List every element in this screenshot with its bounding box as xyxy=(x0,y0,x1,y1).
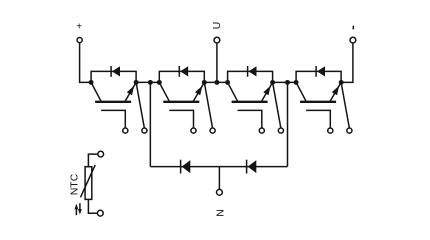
node T4 collector xyxy=(294,80,299,85)
node T1 collector xyxy=(89,80,94,85)
node T3 collector xyxy=(225,80,230,85)
wire + to T1 collector xyxy=(80,43,92,82)
svg-text:U: U xyxy=(211,22,223,30)
wire N terminal drop xyxy=(218,167,220,190)
gate G4 wire and terminal xyxy=(306,110,333,133)
node T2 collector xyxy=(157,80,162,85)
terminal NTC bottom xyxy=(97,210,103,216)
clamp diode D6 xyxy=(247,160,257,174)
auxiliary emitter E4 wire and terminal xyxy=(341,82,352,133)
gate G2 wire and terminal xyxy=(169,110,196,133)
wire neutral clamp rail xyxy=(150,166,287,168)
node T2 emitter xyxy=(202,80,207,85)
auxiliary emitter E2 wire and terminal xyxy=(204,82,215,133)
wire lower clamp riser xyxy=(287,82,289,166)
wire T4 emitter to - terminal xyxy=(341,43,353,82)
freewheel diode D2 (anti-parallel on T2) xyxy=(179,66,188,77)
terminal U (phase output) xyxy=(211,22,223,43)
terminal - (DC minus) xyxy=(350,26,356,43)
svg-text:NTC: NTC xyxy=(69,173,81,195)
node clamp tap lower (to D6) xyxy=(285,80,290,85)
wire T3 emitter to T4 collector xyxy=(273,81,297,83)
node T4 emitter xyxy=(339,80,344,85)
node U tap xyxy=(214,80,219,85)
wire T1 emitter to T2 collector xyxy=(136,81,159,83)
node T3 emitter xyxy=(270,80,275,85)
svg-text:+: + xyxy=(76,22,82,33)
node clamp tap upper (to D5) xyxy=(148,80,153,85)
wire U terminal drop xyxy=(216,43,218,82)
gate G1 wire and terminal xyxy=(101,110,128,133)
svg-text:N: N xyxy=(215,209,227,217)
terminal + (DC plus) xyxy=(76,22,82,43)
terminal NTC top xyxy=(98,151,104,157)
gate G3 wire and terminal xyxy=(238,110,265,133)
thermistor R1 NTC xyxy=(81,154,98,213)
clamp diode D5 xyxy=(181,160,191,174)
auxiliary emitter E1 wire and terminal xyxy=(136,82,147,133)
igbt T4 xyxy=(296,71,341,101)
wire upper clamp riser xyxy=(149,82,151,166)
auxiliary emitter E3 wire and terminal xyxy=(273,82,284,133)
terminal N (neutral) xyxy=(215,189,227,216)
freewheel diode D4 (anti-parallel on T4) xyxy=(316,66,325,77)
freewheel diode D1 (anti-parallel on T1) xyxy=(111,66,120,77)
igbt T3 xyxy=(228,71,273,101)
wire T2 emitter to T3 collector (phase bus) xyxy=(204,81,227,83)
igbt T2 xyxy=(159,71,204,101)
freewheel diode D3 (anti-parallel on T3) xyxy=(248,66,257,77)
temperature arrows up/down xyxy=(75,203,82,215)
node T1 emitter xyxy=(134,80,139,85)
igbt T1 xyxy=(91,71,136,101)
